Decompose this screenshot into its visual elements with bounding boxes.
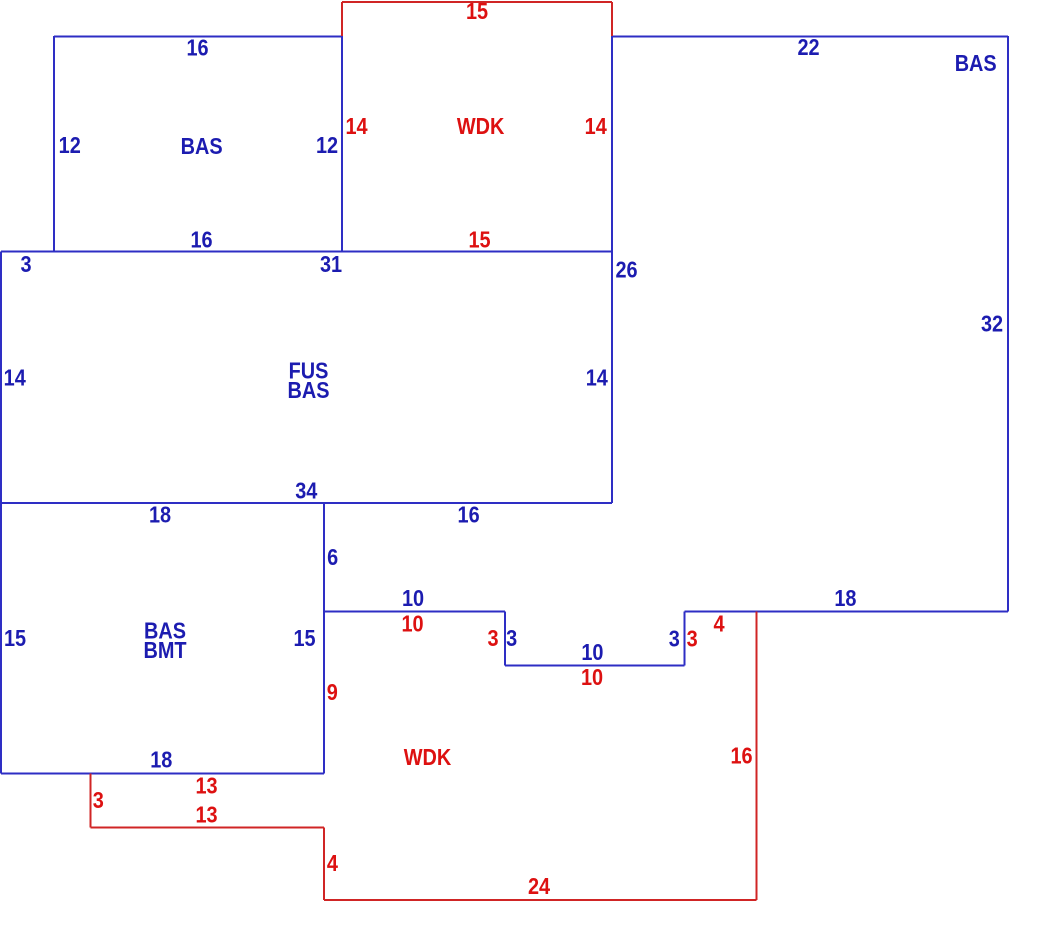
- svg-text:10: 10: [401, 611, 423, 637]
- svg-text:4: 4: [327, 851, 338, 877]
- svg-text:22: 22: [797, 35, 819, 61]
- svg-text:10: 10: [581, 640, 603, 666]
- svg-text:3: 3: [506, 626, 517, 652]
- svg-text:6: 6: [327, 545, 338, 571]
- svg-text:15: 15: [466, 0, 488, 24]
- svg-text:16: 16: [458, 502, 480, 528]
- svg-text:13: 13: [195, 773, 217, 799]
- svg-text:15: 15: [4, 626, 26, 652]
- svg-text:14: 14: [345, 114, 367, 140]
- svg-text:32: 32: [981, 311, 1003, 337]
- svg-text:34: 34: [295, 478, 317, 504]
- svg-text:13: 13: [195, 802, 217, 828]
- svg-text:3: 3: [93, 788, 104, 814]
- svg-text:10: 10: [402, 586, 424, 612]
- svg-text:18: 18: [150, 747, 172, 773]
- svg-text:BAS: BAS: [287, 378, 329, 404]
- svg-text:15: 15: [293, 626, 315, 652]
- svg-text:WDK: WDK: [457, 114, 505, 140]
- svg-text:10: 10: [581, 665, 603, 691]
- svg-text:BAS: BAS: [181, 134, 223, 160]
- svg-text:14: 14: [586, 365, 608, 391]
- svg-text:16: 16: [730, 743, 752, 769]
- svg-text:18: 18: [834, 586, 856, 612]
- svg-text:12: 12: [316, 133, 338, 159]
- svg-text:12: 12: [59, 133, 81, 159]
- svg-text:BAS: BAS: [955, 51, 997, 77]
- svg-text:16: 16: [186, 35, 208, 61]
- svg-text:14: 14: [585, 114, 607, 140]
- svg-text:14: 14: [4, 365, 26, 391]
- svg-text:31: 31: [320, 252, 342, 278]
- svg-text:3: 3: [687, 626, 698, 652]
- svg-text:3: 3: [20, 252, 31, 278]
- svg-text:16: 16: [190, 227, 212, 253]
- svg-text:3: 3: [669, 626, 680, 652]
- svg-text:15: 15: [468, 227, 490, 253]
- svg-text:18: 18: [149, 502, 171, 528]
- svg-text:9: 9: [327, 680, 338, 706]
- svg-text:26: 26: [615, 257, 637, 283]
- svg-text:BMT: BMT: [143, 638, 186, 664]
- svg-text:24: 24: [528, 874, 550, 900]
- svg-text:WDK: WDK: [404, 745, 452, 771]
- svg-text:3: 3: [487, 626, 498, 652]
- svg-text:4: 4: [713, 611, 724, 637]
